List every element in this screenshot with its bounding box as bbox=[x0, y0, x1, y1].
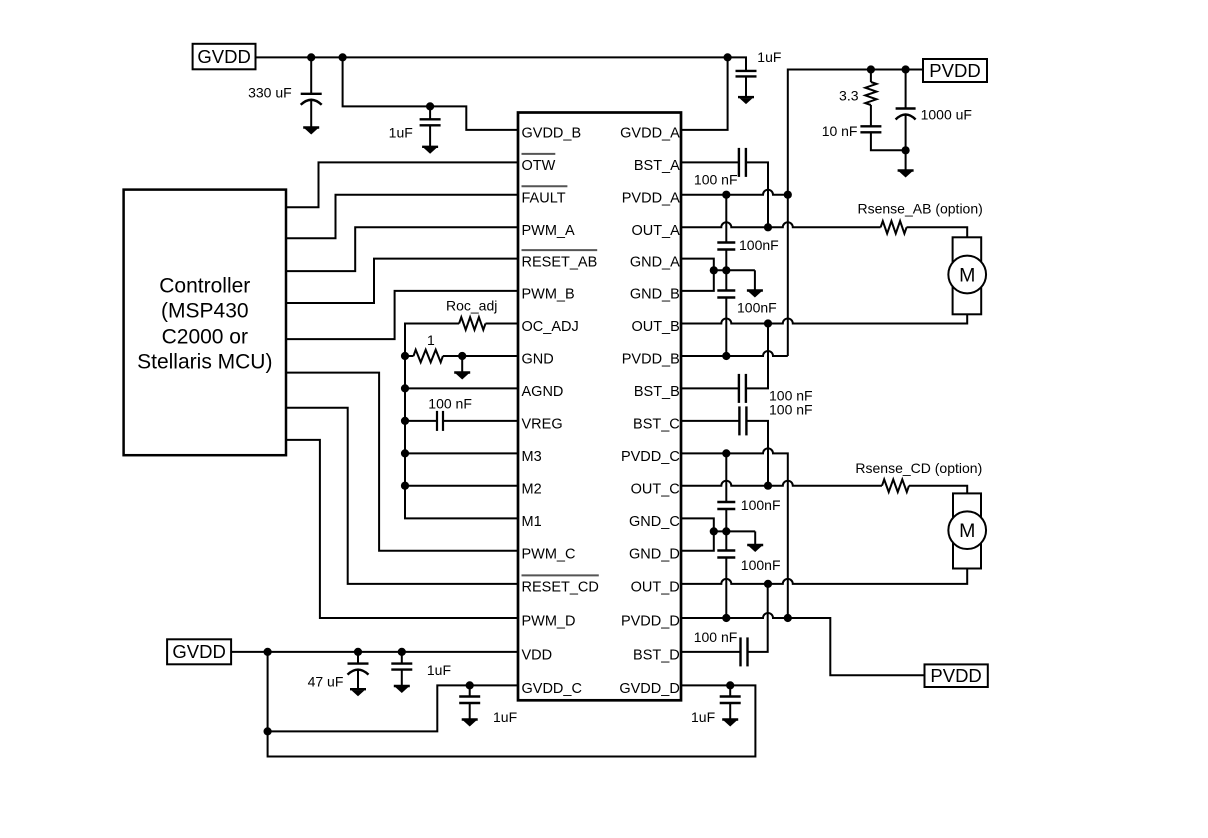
svg-text:100nF: 100nF bbox=[739, 237, 779, 253]
svg-text:PVDD_A: PVDD_A bbox=[622, 190, 680, 206]
svg-text:GVDD_D: GVDD_D bbox=[619, 681, 679, 697]
svg-text:1uF: 1uF bbox=[493, 709, 517, 725]
svg-text:GVDD: GVDD bbox=[197, 46, 250, 67]
svg-text:GVDD_B: GVDD_B bbox=[522, 126, 582, 142]
svg-text:FAULT: FAULT bbox=[522, 190, 566, 206]
svg-text:Rsense_CD (option): Rsense_CD (option) bbox=[855, 460, 982, 476]
svg-text:M: M bbox=[959, 264, 975, 286]
svg-text:1uF: 1uF bbox=[427, 662, 451, 678]
svg-text:1uF: 1uF bbox=[757, 49, 781, 65]
svg-text:BST_B: BST_B bbox=[634, 384, 680, 400]
svg-text:RESET_CD: RESET_CD bbox=[522, 580, 599, 596]
svg-text:1uF: 1uF bbox=[691, 709, 715, 725]
svg-text:PWM_B: PWM_B bbox=[522, 287, 575, 303]
svg-text:M: M bbox=[959, 520, 975, 542]
svg-text:OC_ADJ: OC_ADJ bbox=[522, 319, 579, 335]
svg-text:BST_C: BST_C bbox=[633, 417, 680, 433]
svg-text:GND: GND bbox=[522, 352, 554, 368]
svg-text:PWM_A: PWM_A bbox=[522, 223, 576, 239]
svg-text:PVDD: PVDD bbox=[930, 665, 981, 686]
svg-text:GVDD_C: GVDD_C bbox=[522, 681, 582, 697]
svg-text:OUT_D: OUT_D bbox=[631, 580, 680, 596]
svg-text:GND_A: GND_A bbox=[630, 254, 680, 270]
svg-text:OTW: OTW bbox=[522, 158, 556, 174]
svg-text:PVDD_D: PVDD_D bbox=[621, 614, 680, 630]
svg-text:VREG: VREG bbox=[522, 417, 563, 433]
svg-text:100nF: 100nF bbox=[741, 557, 781, 573]
svg-text:47 uF: 47 uF bbox=[308, 674, 344, 690]
svg-text:RESET_AB: RESET_AB bbox=[522, 254, 598, 270]
svg-text:Controller: Controller bbox=[159, 275, 250, 298]
svg-text:C2000 or: C2000 or bbox=[162, 326, 248, 349]
svg-text:1: 1 bbox=[427, 332, 435, 348]
svg-text:1uF: 1uF bbox=[389, 125, 413, 141]
svg-text:M1: M1 bbox=[522, 514, 542, 530]
svg-text:100nF: 100nF bbox=[737, 300, 777, 316]
svg-text:PWM_D: PWM_D bbox=[522, 614, 576, 630]
svg-text:GVDD: GVDD bbox=[172, 641, 225, 662]
svg-text:100 nF: 100 nF bbox=[694, 629, 738, 645]
svg-text:330 uF: 330 uF bbox=[248, 85, 292, 101]
svg-text:Rsense_AB (option): Rsense_AB (option) bbox=[858, 201, 983, 217]
svg-text:GVDD_A: GVDD_A bbox=[620, 126, 680, 142]
svg-text:1000 uF: 1000 uF bbox=[921, 107, 972, 123]
svg-text:BST_D: BST_D bbox=[633, 648, 680, 664]
svg-text:GND_D: GND_D bbox=[629, 547, 680, 563]
svg-text:100nF: 100nF bbox=[741, 497, 781, 513]
svg-text:M2: M2 bbox=[522, 481, 542, 497]
svg-text:BST_A: BST_A bbox=[634, 158, 680, 174]
svg-text:M3: M3 bbox=[522, 449, 542, 465]
svg-text:OUT_A: OUT_A bbox=[631, 223, 680, 239]
svg-text:100 nF: 100 nF bbox=[428, 396, 472, 412]
svg-text:Roc_adj: Roc_adj bbox=[446, 298, 497, 314]
svg-text:10 nF: 10 nF bbox=[822, 123, 858, 139]
svg-text:GND_B: GND_B bbox=[630, 287, 680, 303]
svg-text:100 nF: 100 nF bbox=[694, 172, 738, 188]
svg-text:PVDD_B: PVDD_B bbox=[622, 352, 680, 368]
svg-text:AGND: AGND bbox=[522, 384, 564, 400]
svg-text:100 nF: 100 nF bbox=[769, 402, 813, 418]
svg-text:(MSP430: (MSP430 bbox=[161, 300, 249, 323]
svg-text:OUT_B: OUT_B bbox=[631, 319, 679, 335]
svg-text:PVDD_C: PVDD_C bbox=[621, 449, 680, 465]
svg-text:PWM_C: PWM_C bbox=[522, 547, 576, 563]
svg-text:OUT_C: OUT_C bbox=[631, 481, 680, 497]
svg-text:Stellaris MCU): Stellaris MCU) bbox=[137, 351, 272, 374]
svg-text:VDD: VDD bbox=[522, 648, 553, 664]
svg-text:3.3: 3.3 bbox=[839, 88, 859, 104]
svg-text:PVDD: PVDD bbox=[929, 60, 980, 81]
svg-text:GND_C: GND_C bbox=[629, 514, 680, 530]
